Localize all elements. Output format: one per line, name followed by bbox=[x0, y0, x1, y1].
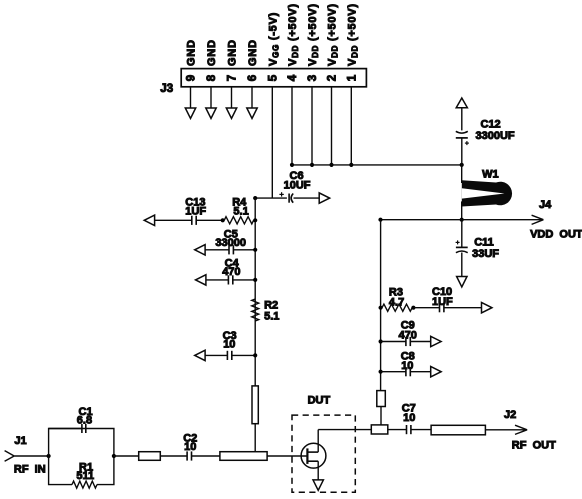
svg-text:511: 511 bbox=[76, 470, 94, 482]
svg-text:5.1: 5.1 bbox=[264, 310, 279, 322]
svg-text:GND: GND bbox=[206, 39, 218, 66]
svg-text:10: 10 bbox=[223, 339, 235, 351]
svg-text:VGG (-5V): VGG (-5V) bbox=[267, 12, 280, 66]
svg-text:W1: W1 bbox=[482, 169, 499, 181]
svg-text:J1: J1 bbox=[14, 435, 26, 447]
svg-text:6.8: 6.8 bbox=[77, 415, 92, 427]
svg-text:GND: GND bbox=[247, 39, 259, 66]
svg-text:J4: J4 bbox=[539, 199, 552, 211]
svg-text:2: 2 bbox=[327, 75, 339, 81]
svg-text:33UF: 33UF bbox=[472, 248, 499, 260]
svg-text:470: 470 bbox=[222, 266, 240, 278]
svg-text:C12: C12 bbox=[481, 119, 501, 131]
svg-text:RF OUT: RF OUT bbox=[512, 440, 556, 452]
svg-text:10: 10 bbox=[403, 412, 415, 424]
svg-text:5: 5 bbox=[267, 74, 279, 81]
svg-text:1UF: 1UF bbox=[185, 205, 206, 217]
svg-text:GND: GND bbox=[186, 39, 198, 66]
svg-text:4: 4 bbox=[287, 74, 299, 81]
svg-text:5.1: 5.1 bbox=[233, 206, 248, 218]
svg-text:470: 470 bbox=[399, 330, 417, 342]
svg-text:J2: J2 bbox=[504, 409, 516, 421]
svg-text:4.7: 4.7 bbox=[389, 296, 404, 308]
svg-text:10UF: 10UF bbox=[284, 180, 311, 192]
svg-text:3: 3 bbox=[307, 75, 319, 81]
svg-text:C11: C11 bbox=[474, 237, 494, 249]
svg-text:VDD OUT: VDD OUT bbox=[530, 229, 582, 241]
svg-text:6: 6 bbox=[247, 75, 259, 81]
svg-text:DUT: DUT bbox=[308, 394, 331, 406]
svg-text:J3: J3 bbox=[160, 83, 173, 95]
svg-text:33000: 33000 bbox=[215, 237, 246, 249]
svg-text:1UF: 1UF bbox=[432, 296, 453, 308]
svg-text:VDD (+50V): VDD (+50V) bbox=[307, 3, 320, 66]
svg-text:10: 10 bbox=[401, 360, 413, 372]
svg-text:1: 1 bbox=[346, 74, 358, 81]
svg-text:VDD (+50V): VDD (+50V) bbox=[287, 3, 300, 66]
svg-text:10: 10 bbox=[184, 441, 196, 453]
svg-text:7: 7 bbox=[227, 75, 239, 81]
svg-text:8: 8 bbox=[206, 74, 218, 81]
svg-text:3300UF: 3300UF bbox=[476, 130, 515, 142]
svg-text:VDD (+50V): VDD (+50V) bbox=[327, 3, 340, 66]
svg-text:RF IN: RF IN bbox=[14, 464, 46, 476]
svg-text:VDD (+50V): VDD (+50V) bbox=[346, 3, 359, 66]
svg-text:9: 9 bbox=[186, 75, 198, 81]
svg-text:GND: GND bbox=[227, 39, 239, 66]
